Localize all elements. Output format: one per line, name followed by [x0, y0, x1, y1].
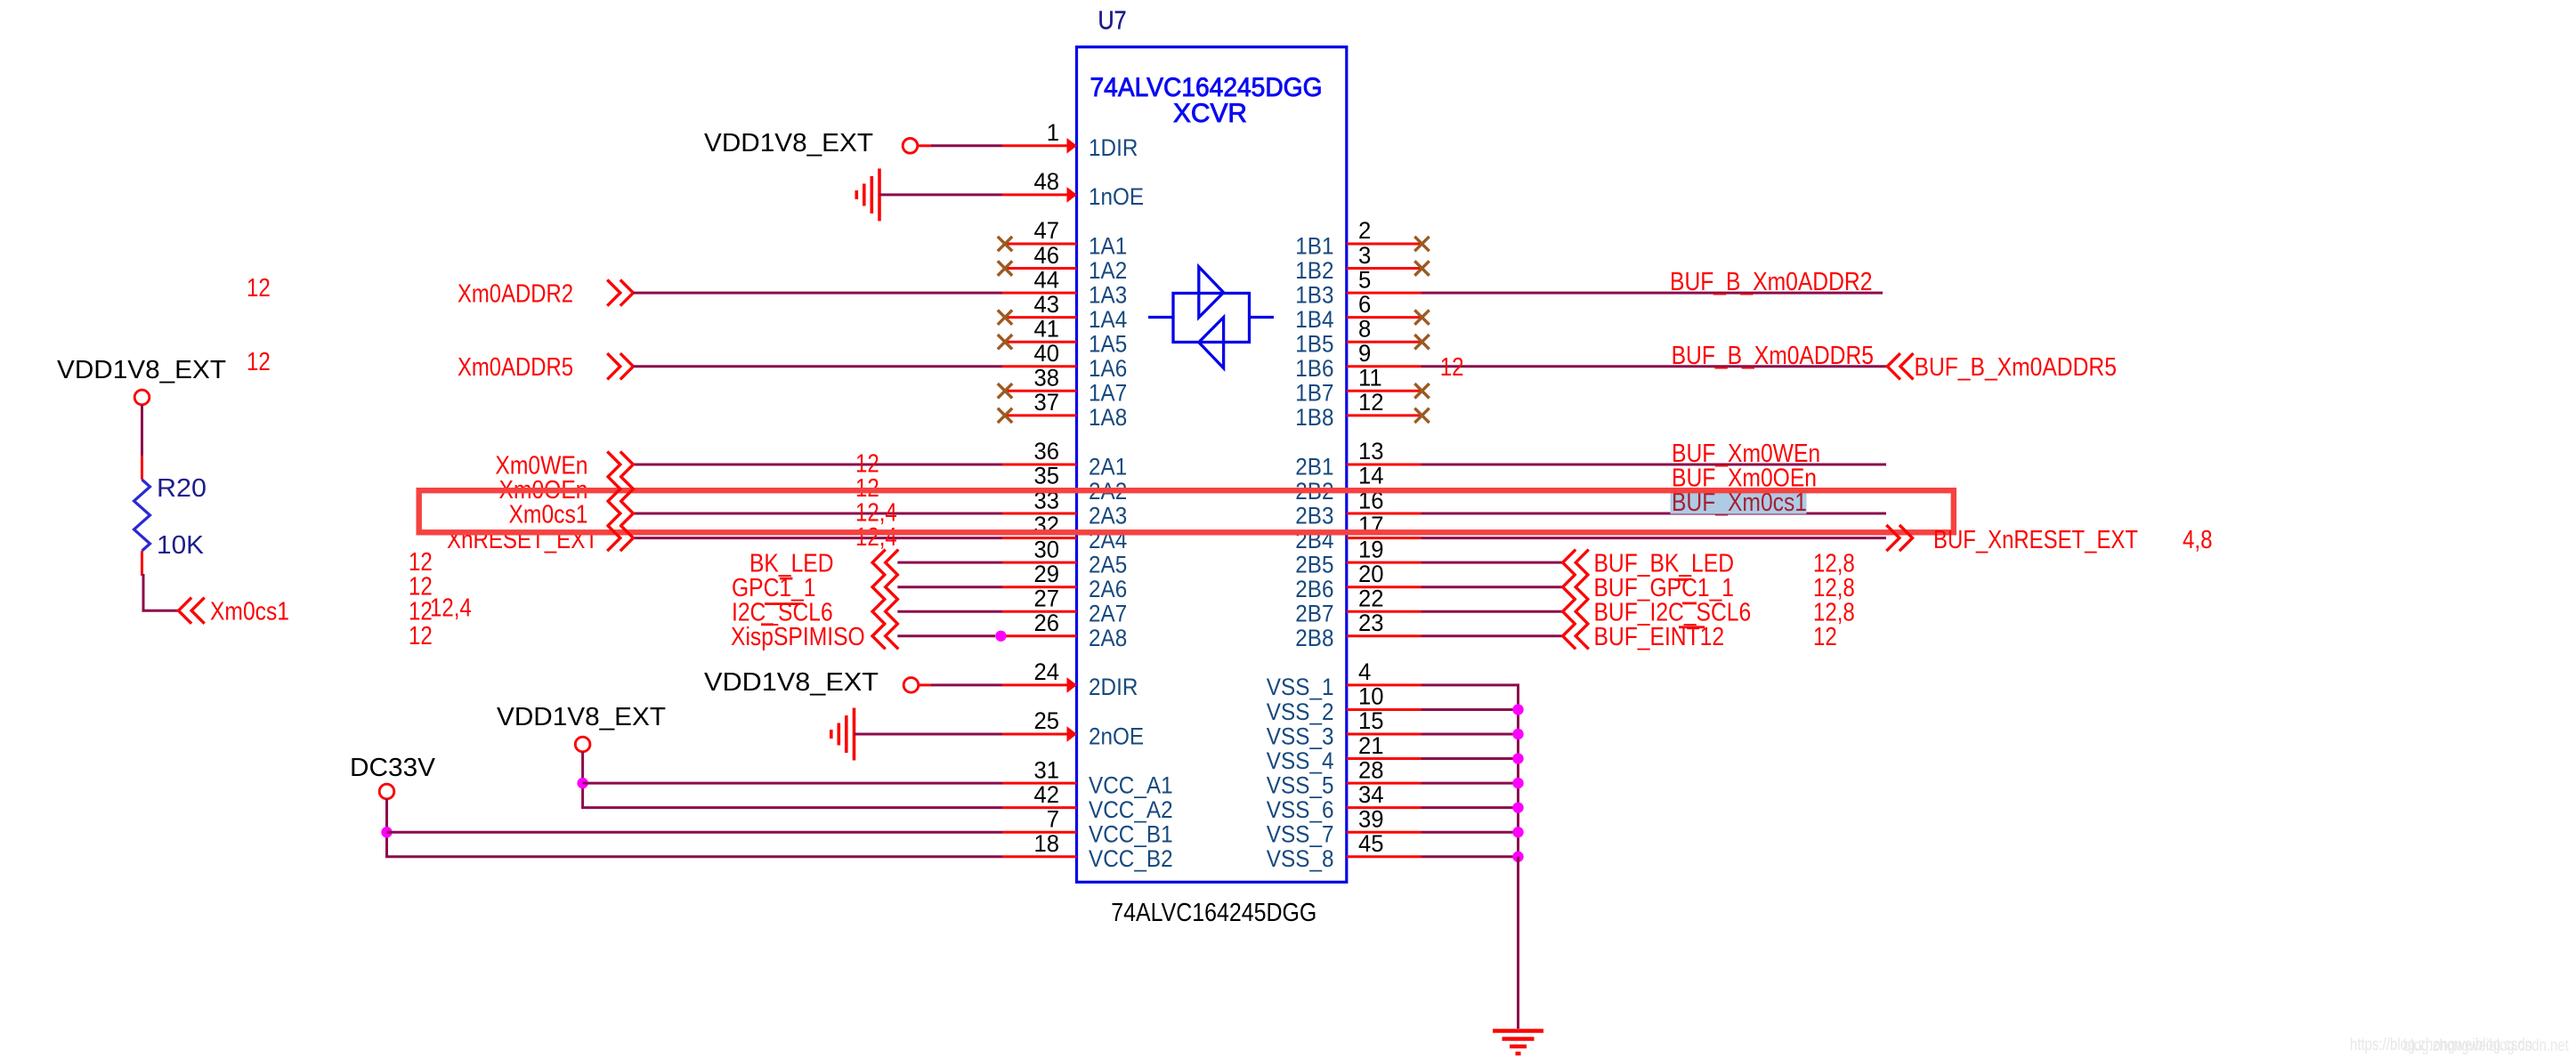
no-connect X on pin 41: [998, 335, 1012, 349]
power terminal circle (VCC_A): [575, 737, 590, 752]
svg-text:9: 9: [1358, 340, 1371, 367]
svg-text:21: 21: [1358, 732, 1384, 759]
svg-text:41: 41: [1034, 315, 1060, 342]
svg-text:5: 5: [1358, 266, 1371, 293]
junction dot VSS_8: [1512, 852, 1523, 862]
svg-text:VDD1V8_EXT: VDD1V8_EXT: [57, 356, 226, 384]
wire VSS_4 to ground bus: [1422, 757, 1519, 760]
svg-text:22: 22: [1358, 585, 1384, 611]
off-page connector Xm0ADDR2: [607, 280, 633, 306]
svg-text:VCC_A2: VCC_A2: [1089, 796, 1173, 823]
svg-text:10K: 10K: [157, 531, 205, 560]
svg-text:DC33V: DC33V: [350, 754, 436, 782]
svg-text:Xm0cs1: Xm0cs1: [509, 500, 588, 529]
svg-text:10: 10: [1358, 683, 1384, 710]
svg-text:2B1: 2B1: [1295, 453, 1333, 480]
resistor R20 zigzag: [134, 480, 150, 551]
wire ground bus down to earth: [1517, 857, 1519, 1029]
svg-text:44: 44: [1034, 266, 1060, 293]
wire R20 to Xm0cs1 connector: [141, 551, 143, 576]
no-connect X on pin 46: [998, 261, 1012, 275]
no-connect X on pin 8: [1414, 335, 1429, 349]
no-connect X on pin 37: [998, 408, 1012, 423]
svg-text:31: 31: [1034, 756, 1060, 783]
svg-text:24: 24: [1034, 658, 1060, 685]
wire VSS_3 to ground bus: [1422, 733, 1519, 736]
pin 20 2B6 (right lead): [1347, 586, 1422, 588]
svg-text:VSS_4: VSS_4: [1267, 747, 1334, 774]
no-connect X on pin 6: [1414, 310, 1429, 324]
wire VSS_8 to ground bus: [1422, 855, 1519, 858]
pin 19 2B5 (right lead): [1347, 561, 1422, 564]
svg-text:VSS_5: VSS_5: [1267, 771, 1334, 798]
svg-text:BUF_B_Xm0ADDR2: BUF_B_Xm0ADDR2: [1670, 268, 1872, 296]
wire GPC1_1 to 2A6: [897, 586, 1002, 588]
pin 23 2B8 (right lead): [1347, 634, 1422, 637]
no-connect X on pin 47: [998, 237, 1012, 251]
no-connect X on pin 3: [1414, 261, 1429, 275]
svg-text:1A6: 1A6: [1089, 355, 1127, 382]
pin 29 2A6 (left lead): [1002, 586, 1077, 588]
svg-text:VSS_6: VSS_6: [1267, 796, 1334, 823]
earth ground symbol: [1493, 1031, 1543, 1054]
svg-text:2A1: 2A1: [1089, 453, 1127, 480]
off-page connector I2C_SCL6: [872, 599, 898, 625]
pin 16 2B3 (right lead): [1347, 513, 1422, 515]
wire Xm0ADDR2 to 1A3: [633, 292, 1002, 295]
pin 17 2B4 (right lead): [1347, 537, 1422, 539]
svg-text:VDD1V8_EXT: VDD1V8_EXT: [497, 703, 666, 731]
svg-text:2A8: 2A8: [1089, 625, 1127, 651]
wire I2C_SCL6 to 2A7: [897, 610, 1002, 613]
svg-text:2A7: 2A7: [1089, 601, 1127, 627]
svg-text:XCVR: XCVR: [1173, 99, 1247, 128]
svg-text:23: 23: [1358, 610, 1384, 636]
off-page connector Xm0cs1 (bottom left): [179, 598, 205, 624]
wire VDD1V8_EXT to R20: [141, 405, 143, 456]
svg-text:38: 38: [1034, 365, 1060, 392]
svg-text:3: 3: [1358, 242, 1371, 269]
wire VSS_1 to ground bus: [1422, 685, 1519, 710]
transceiver buffer symbol: [1148, 267, 1274, 368]
IC U7 74ALVC164245DGG body: [1077, 47, 1347, 883]
highlight rectangle (red annotation box): [419, 490, 1954, 532]
svg-text:1A2: 1A2: [1089, 257, 1127, 284]
pin 47 1A1 (left lead): [1005, 243, 1077, 246]
ground symbol (1nOE): [856, 168, 879, 221]
junction dot VSS_2: [1512, 704, 1523, 715]
svg-text:34: 34: [1358, 781, 1384, 808]
power terminal circle (R20 top): [134, 390, 150, 405]
off-page connector BUF_GPC1_1: [1563, 574, 1589, 600]
pin 41 1A5 (left lead): [1005, 341, 1077, 343]
svg-text:XispSPIMISO: XispSPIMISO: [731, 623, 865, 651]
wire Xm0OEn to 2A2: [633, 488, 1002, 490]
svg-text:R20: R20: [157, 474, 207, 503]
svg-text:1B2: 1B2: [1295, 257, 1333, 284]
svg-text:2nOE: 2nOE: [1089, 723, 1144, 749]
ground symbol (2nOE): [831, 708, 855, 761]
wire 1B6 BUF_B_Xm0ADDR5: [1422, 365, 1888, 367]
svg-text:VSS_3: VSS_3: [1267, 723, 1334, 749]
pin 33 2A3 (left lead): [1002, 513, 1077, 515]
svg-text:1B8: 1B8: [1295, 404, 1333, 431]
pin 42 VCC_A2 (left lead): [1002, 806, 1077, 809]
pin 21 VSS_4 (right lead): [1347, 757, 1422, 760]
wire 2B6 BUF_GPC1_1: [1422, 586, 1563, 588]
pin 37 1A8 (left lead): [1005, 414, 1077, 416]
overbar on XispSPIMISO: [761, 623, 774, 626]
svg-text:VCC_B2: VCC_B2: [1089, 845, 1173, 872]
svg-text:46: 46: [1034, 242, 1060, 269]
svg-text:1A3: 1A3: [1089, 281, 1127, 308]
wire ground to 2nOE: [855, 733, 1003, 736]
pin 14 2B2 (right lead): [1347, 488, 1422, 490]
svg-text:27: 27: [1034, 585, 1060, 611]
no-connect X on pin 12: [1414, 408, 1429, 423]
svg-text:blog.zhongweiblog.csdn.net: blog.zhongweiblog.csdn.net: [2403, 1037, 2570, 1055]
svg-text:11: 11: [1358, 365, 1382, 392]
off-page connector Xm0cs1: [607, 500, 633, 526]
pin 34 VSS_6 (right lead): [1347, 806, 1422, 809]
off-page connector Xm0OEn: [607, 476, 633, 502]
svg-text:1B4: 1B4: [1295, 306, 1333, 333]
wire Xm0WEn to 2A1: [633, 463, 1002, 465]
wire to VCC_A1: [583, 782, 1002, 785]
svg-text:12: 12: [1358, 389, 1384, 416]
svg-text:12: 12: [1440, 353, 1464, 382]
off-page connector BK_LED: [872, 550, 898, 576]
wire 2B2 BUF_Xm0OEn: [1422, 488, 1887, 490]
pin 4 VSS_1 (right lead): [1347, 683, 1422, 686]
overbar on BUF_EINT12: [1679, 626, 1705, 628]
svg-text:1A1: 1A1: [1089, 232, 1127, 259]
pin 39 VSS_7 (right lead): [1347, 831, 1422, 834]
svg-text:6: 6: [1358, 291, 1371, 318]
wire BK_LED to 2A5: [897, 561, 1002, 564]
wire VDD1V8_EXT vertical to VCC_A2: [581, 752, 584, 808]
svg-text:1: 1: [1047, 119, 1059, 146]
off-page connector BUF_B_Xm0ADDR5: [1887, 353, 1913, 379]
no-connect X on pin 2: [1414, 237, 1429, 251]
wire 2B8 BUF_EINT12: [1422, 634, 1563, 637]
power terminal circle (DC33V): [379, 784, 394, 799]
svg-text:1A5: 1A5: [1089, 331, 1127, 358]
svg-text:VDD1V8_EXT: VDD1V8_EXT: [704, 129, 873, 157]
overbar on BUF_GPC1_1: [1674, 578, 1689, 581]
svg-text:2B8: 2B8: [1295, 625, 1333, 651]
junction dot VSS_4: [1512, 753, 1523, 763]
svg-text:43: 43: [1034, 291, 1060, 318]
off-page connector BUF_BK_LED: [1563, 550, 1589, 576]
pin 1 1DIR (left lead): [1002, 144, 1069, 147]
junction dot VCC_B1 branch: [381, 827, 392, 837]
svg-text:2A6: 2A6: [1089, 576, 1127, 602]
wire 2B4 BUF_XnRESET_EXT: [1422, 537, 1887, 539]
junction dot VSS_3: [1512, 729, 1523, 739]
pin 44 1A3 (left lead): [1002, 292, 1077, 295]
svg-text:4,8: 4,8: [2183, 526, 2213, 554]
svg-text:40: 40: [1034, 340, 1060, 367]
pin 9 1B6 (right lead): [1347, 365, 1422, 367]
wire DC33V vertical to VCC_B2: [385, 799, 388, 857]
svg-text:1DIR: 1DIR: [1089, 134, 1138, 161]
svg-text:1B5: 1B5: [1295, 331, 1333, 358]
off-page connector Xm0WEn: [607, 451, 633, 477]
svg-text:18: 18: [1034, 830, 1060, 857]
pin 31 VCC_A1 (left lead): [1002, 782, 1077, 785]
svg-text:1A7: 1A7: [1089, 380, 1127, 407]
junction dot on XispSPIMISO wire: [995, 631, 1006, 642]
svg-text:2A5: 2A5: [1089, 551, 1127, 577]
svg-text:26: 26: [1034, 610, 1060, 636]
svg-text:VSS_8: VSS_8: [1267, 845, 1334, 872]
svg-text:14: 14: [1358, 463, 1384, 489]
pin 15 VSS_3 (right lead): [1347, 733, 1422, 736]
svg-text:20: 20: [1358, 561, 1384, 587]
svg-text:U7: U7: [1098, 7, 1127, 36]
svg-text:2DIR: 2DIR: [1089, 674, 1138, 700]
svg-text:30: 30: [1034, 536, 1060, 562]
power terminal circle (1DIR): [903, 139, 918, 154]
svg-text:1A4: 1A4: [1089, 306, 1127, 333]
svg-text:74ALVC164245DGG: 74ALVC164245DGG: [1111, 899, 1316, 927]
junction dot VCC_A1 branch: [577, 778, 587, 788]
svg-text:VCC_A1: VCC_A1: [1089, 771, 1173, 798]
svg-text:1A8: 1A8: [1089, 404, 1127, 431]
no-connect X on pin 11: [1414, 384, 1429, 398]
wire Xm0cs1 to 2A3: [633, 513, 1002, 515]
pin 45 VSS_8 (right lead): [1347, 855, 1422, 858]
svg-text:12: 12: [247, 274, 271, 303]
wire XispSPIMISO to 2A8: [897, 634, 995, 637]
off-page connector Xm0ADDR5: [607, 353, 633, 379]
wire 2B1 BUF_Xm0WEn: [1422, 463, 1887, 465]
pin 43 1A4 (left lead): [1005, 316, 1077, 319]
svg-text:1B6: 1B6: [1295, 355, 1333, 382]
junction dot VSS_7: [1512, 827, 1523, 837]
off-page connector XnRESET_EXT: [607, 525, 633, 551]
selection highlight on BUF_Xm0cs1: [1671, 492, 1807, 514]
pin 11 1B7 (right lead): [1347, 390, 1422, 392]
svg-text:2B3: 2B3: [1295, 502, 1333, 529]
svg-text:12: 12: [247, 348, 271, 376]
wire 1B3 BUF_B_Xm0ADDR2: [1422, 292, 1883, 295]
svg-text:BUF_B_Xm0ADDR5: BUF_B_Xm0ADDR5: [1672, 342, 1874, 370]
wire Xm0ADDR5 to 1A6: [633, 365, 1002, 367]
svg-text:1B1: 1B1: [1295, 232, 1333, 259]
wire XnRESET_EXT to 2A4: [633, 537, 1002, 539]
pin 8 1B5 (right lead): [1347, 341, 1422, 343]
svg-text:BUF_B_Xm0ADDR5: BUF_B_Xm0ADDR5: [1915, 353, 2117, 382]
wire VDD1V8_EXT to 2DIR: [919, 683, 931, 686]
pin 6 1B4 (right lead): [1347, 316, 1422, 319]
overbar on BUF_I2C_SCL6: [1682, 602, 1697, 605]
pin 36 2A1 (left lead): [1002, 463, 1077, 465]
junction dot VSS_6: [1512, 802, 1523, 812]
pin 12 1B8 (right lead): [1347, 414, 1422, 416]
wire 2B5 BUF_BK_LED: [1422, 561, 1563, 564]
svg-text:45: 45: [1358, 830, 1384, 857]
svg-text:19: 19: [1358, 536, 1384, 562]
svg-text:Xm0ADDR2: Xm0ADDR2: [458, 280, 573, 309]
off-page connector GPC1_1: [872, 574, 898, 600]
pin 46 1A2 (left lead): [1005, 267, 1077, 270]
no-connect X on pin 43: [998, 310, 1012, 324]
wire VSS_6 to ground bus: [1422, 806, 1519, 809]
overbar on GPC1_1: [780, 577, 792, 580]
pin 40 1A6 (left lead): [1002, 365, 1077, 367]
svg-text:Xm0cs1: Xm0cs1: [210, 598, 289, 626]
svg-text:15: 15: [1358, 707, 1384, 734]
wire VSS_7 to ground bus: [1422, 831, 1519, 834]
svg-text:12: 12: [409, 622, 433, 650]
pin 28 VSS_5 (right lead): [1347, 782, 1422, 785]
svg-text:2: 2: [1358, 217, 1371, 244]
svg-text:2B5: 2B5: [1295, 551, 1333, 577]
pin 48 1nOE (left lead): [1002, 193, 1069, 196]
svg-text:2B6: 2B6: [1295, 576, 1333, 602]
wire to VCC_A2: [581, 806, 1002, 809]
svg-text:VCC_B1: VCC_B1: [1089, 821, 1173, 848]
off-page connector BUF_EINT12: [1563, 623, 1589, 649]
svg-text:42: 42: [1034, 781, 1060, 808]
svg-text:4: 4: [1358, 658, 1371, 685]
svg-text:VSS_1: VSS_1: [1267, 674, 1334, 700]
no-connect X on pin 38: [998, 384, 1012, 398]
pin 2 1B1 (right lead): [1347, 243, 1422, 246]
svg-text:39: 39: [1358, 805, 1384, 832]
svg-text:35: 35: [1034, 463, 1060, 489]
off-page connector XispSPIMISO: [872, 623, 898, 649]
pin 18 VCC_B2 (left lead): [1002, 855, 1077, 858]
pin 26 2A8 (left lead): [1002, 634, 1077, 637]
wire VDD1V8_EXT to 1DIR: [918, 144, 931, 147]
svg-text:2B7: 2B7: [1295, 601, 1333, 627]
wire ground to 1nOE: [879, 193, 1002, 196]
svg-text:VSS_7: VSS_7: [1267, 821, 1334, 848]
pin 38 1A7 (left lead): [1005, 390, 1077, 392]
pin 24 2DIR (left lead): [1002, 683, 1069, 686]
svg-text:1B7: 1B7: [1295, 380, 1333, 407]
overbar on I2C_SCL6: [765, 602, 800, 605]
svg-text:28: 28: [1358, 756, 1384, 783]
svg-text:29: 29: [1034, 561, 1060, 587]
svg-text:7: 7: [1047, 805, 1059, 832]
wire 2B7 BUF_I2C_SCL6: [1422, 610, 1563, 613]
svg-text:1B3: 1B3: [1295, 281, 1333, 308]
svg-text:37: 37: [1034, 389, 1060, 416]
svg-text:Xm0ADDR5: Xm0ADDR5: [458, 353, 573, 382]
svg-text:47: 47: [1034, 217, 1060, 244]
pin 10 VSS_2 (right lead): [1347, 708, 1422, 711]
pin 7 VCC_B1 (left lead): [1002, 831, 1077, 834]
svg-text:BUF_XnRESET_EXT: BUF_XnRESET_EXT: [1933, 526, 2138, 554]
pin 13 2B1 (right lead): [1347, 463, 1422, 465]
svg-text:VDD1V8_EXT: VDD1V8_EXT: [704, 668, 879, 697]
off-page connector BUF_XnRESET_EXT: [1886, 525, 1912, 551]
wire to VCC_B2: [385, 855, 1002, 858]
svg-text:2A3: 2A3: [1089, 502, 1127, 529]
svg-text:VSS_2: VSS_2: [1267, 699, 1334, 725]
svg-text:48: 48: [1034, 168, 1060, 195]
pin 30 2A5 (left lead): [1002, 561, 1077, 564]
pin 27 2A7 (left lead): [1002, 610, 1077, 613]
wire VSS_2 to ground bus: [1422, 708, 1519, 711]
wire VSS_5 to ground bus: [1422, 782, 1519, 785]
power terminal circle (2DIR): [903, 678, 919, 693]
wire 2B3 BUF_Xm0cs1: [1422, 513, 1887, 515]
svg-text:8: 8: [1358, 315, 1371, 342]
svg-text:BUF_EINT12: BUF_EINT12: [1594, 623, 1725, 651]
svg-text:12: 12: [1813, 623, 1837, 651]
pin 5 1B3 (right lead): [1347, 292, 1422, 295]
pin 32 2A4 (left lead): [1002, 537, 1077, 539]
off-page connector BUF_I2C_SCL6: [1563, 599, 1589, 625]
wire to VCC_B1: [387, 831, 1003, 834]
svg-text:12,4: 12,4: [855, 523, 897, 552]
pin 3 1B2 (right lead): [1347, 267, 1422, 270]
pin 25 2nOE (left lead): [1002, 733, 1069, 736]
pin 35 2A2 (left lead): [1002, 488, 1077, 490]
svg-text:1nOE: 1nOE: [1089, 183, 1144, 210]
svg-text:25: 25: [1034, 707, 1060, 734]
pin 22 2B7 (right lead): [1347, 610, 1422, 613]
svg-text:36: 36: [1034, 438, 1060, 464]
svg-text:12,4: 12,4: [430, 594, 472, 622]
junction dot VSS_5: [1512, 778, 1523, 788]
svg-text:13: 13: [1358, 438, 1384, 464]
